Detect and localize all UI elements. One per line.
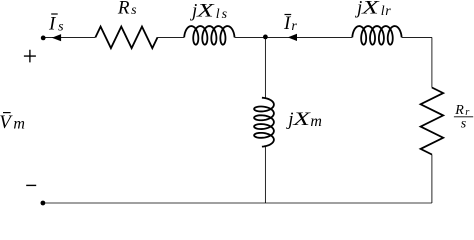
value label Rs <box>117 0 137 18</box>
svg-text:jXls: jXls <box>189 1 228 23</box>
resistor Rr/s (vertical zigzag, rotor resistance) <box>421 88 444 155</box>
label Vm (V-bar sub m, source voltage) <box>0 112 25 133</box>
wire: inductor jXlr to top-right corner <box>402 36 432 38</box>
current label Ir (I-bar sub r) <box>283 13 297 34</box>
wire: between resistor Rs and inductor jXls <box>158 36 185 38</box>
svg-text:Ir: Ir <box>283 13 297 34</box>
svg-text:jXlr: jXlr <box>354 0 391 19</box>
polarity plus sign <box>24 50 36 63</box>
wire: middle vertical, node down to inductor jXm <box>264 37 266 97</box>
inductor jXm (vertical magnetizing coil) <box>254 98 274 147</box>
svg-text:jXm: jXm <box>285 109 322 130</box>
inductor jXls (horizontal coil) <box>184 26 234 45</box>
wire: middle node to inductor jXlr <box>265 36 352 38</box>
inductor jXlr (horizontal coil) <box>352 26 401 45</box>
svg-text:Vm: Vm <box>0 112 25 133</box>
wire: bottom rail from bottom-left terminal to bottom-right corner <box>43 202 432 204</box>
node: top-middle junction dot <box>263 35 268 40</box>
terminal node: top-left input terminal (dot) <box>41 36 46 41</box>
wire: right vertical, top corner down to resistor Rr/s <box>431 37 433 87</box>
resistor Rs (horizontal zigzag) <box>95 27 157 49</box>
wire: middle vertical, inductor jXm down to bottom rail <box>264 147 266 203</box>
svg-text:Rs: Rs <box>117 0 137 18</box>
wire: right vertical, resistor Rr/s down to bottom-right corner <box>431 155 433 204</box>
svg-text:s: s <box>461 117 467 132</box>
value label jXm <box>285 109 322 130</box>
current label Is (I-bar sub s) <box>48 14 64 35</box>
current arrow Ir (points left) <box>288 34 297 41</box>
terminal node: bottom-left input terminal (dot) <box>41 201 46 206</box>
current arrow Is (points left) <box>52 34 61 41</box>
value label jXlr <box>354 0 391 19</box>
wire: between inductor jXls and middle node <box>235 36 266 38</box>
value label Rr/s (fraction) <box>454 103 473 132</box>
wire: top-left segment from input terminal to resistor Rs <box>43 36 95 38</box>
polarity minus sign <box>26 184 36 186</box>
svg-text:Is: Is <box>48 14 64 35</box>
value label jXls <box>189 1 228 23</box>
